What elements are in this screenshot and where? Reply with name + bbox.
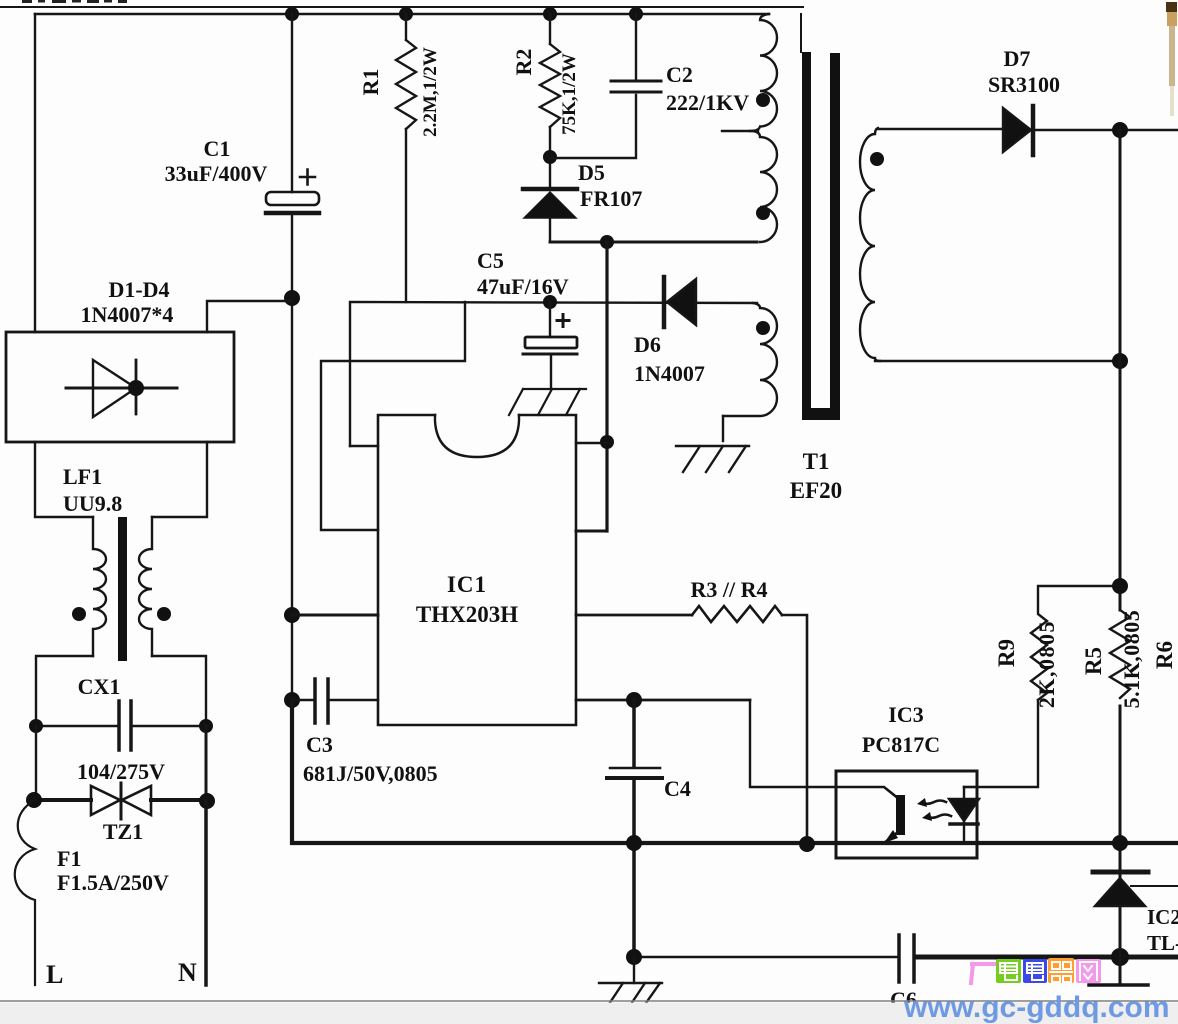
- label C5: [477, 248, 569, 299]
- svg-text:TL-: TL-: [1147, 931, 1178, 955]
- wire to IC3 input: [750, 700, 836, 787]
- label R3//R4: [691, 577, 768, 602]
- label D5: [578, 160, 642, 211]
- svg-text:681J/50V,0805: 681J/50V,0805: [303, 761, 438, 786]
- node C4 top: [626, 692, 642, 708]
- wire IC1 right pin y443: [576, 442, 607, 444]
- svg-text:5.1K,0805: 5.1K,0805: [1119, 610, 1144, 709]
- svg-text:47uF/16V: 47uF/16V: [477, 274, 569, 299]
- svg-text:D6: D6: [634, 332, 661, 357]
- diode D5 FR107: [523, 189, 577, 242]
- node y843/x634: [626, 835, 642, 851]
- label R5: [1081, 610, 1144, 709]
- svg-text:TZ1: TZ1: [103, 819, 143, 844]
- wire ground bus y843: [292, 700, 1178, 843]
- label D1-D4: [81, 277, 174, 327]
- svg-text:IC3: IC3: [888, 702, 923, 727]
- transformer core T1: [801, 14, 840, 420]
- svg-text:D5: D5: [578, 160, 605, 185]
- wire y302: C5/D6 net: [350, 302, 757, 446]
- resistor R1: [396, 14, 416, 302]
- ground (C4 net): [599, 957, 662, 1007]
- node y843/x1120: [1112, 835, 1128, 851]
- svg-text:C3: C3: [306, 732, 333, 757]
- label C6: [890, 987, 917, 1012]
- label IC1: [416, 572, 518, 627]
- svg-text:SR3100: SR3100: [988, 72, 1060, 97]
- label N: [178, 958, 197, 987]
- label IC2: [1147, 905, 1178, 955]
- TVS TZ1: [26, 783, 215, 819]
- svg-text:www.gc-gddq.com: www.gc-gddq.com: [903, 991, 1170, 1024]
- svg-text:D1-D4: D1-D4: [108, 277, 169, 302]
- capacitor C4: [607, 700, 662, 957]
- wire IC1 left pin y615: [292, 614, 378, 617]
- capacitor CX1: [29, 701, 213, 750]
- svg-text:C1: C1: [204, 136, 231, 161]
- svg-text:PC817C: PC817C: [862, 732, 940, 757]
- wire D5 bottom to winding B: [550, 241, 757, 244]
- transformer T1 secondary winding: [860, 128, 880, 361]
- svg-text:222/1KV: 222/1KV: [666, 90, 749, 115]
- node x292/y615: [284, 607, 300, 623]
- wire N rail bottom: [204, 801, 208, 985]
- node at R1 top: [399, 7, 413, 21]
- node y843/x807: [799, 836, 815, 852]
- wire secondary bottom to right rail: [875, 360, 1121, 362]
- shunt regulator IC2 TL431: [1089, 872, 1178, 985]
- label C3: [303, 732, 438, 786]
- bridge rectifier D1-D4: [6, 332, 234, 442]
- label CX1: [77, 674, 165, 784]
- capacitor C5: [523, 302, 577, 389]
- wire bridge out to x292: [207, 301, 292, 332]
- label LF1: [63, 464, 122, 516]
- secondary phase dot: [870, 152, 884, 166]
- label R2: [511, 49, 580, 135]
- svg-text:R2: R2: [511, 49, 536, 76]
- transformer T1 primary winding B: [753, 131, 777, 242]
- node secondary bottom: [1112, 353, 1128, 369]
- svg-text:N: N: [178, 958, 197, 987]
- winding tap stub: [722, 130, 758, 132]
- label R9: [994, 620, 1059, 708]
- label F1: [57, 846, 169, 895]
- wire IC1 left pin y530 nested step: [321, 302, 465, 530]
- transformer T1 primary winding A: [750, 14, 777, 131]
- ground (aux winding): [676, 446, 749, 472]
- wire right rail: [1119, 130, 1122, 985]
- label D7: [988, 46, 1060, 97]
- svg-text:2K,0805: 2K,0805: [1034, 620, 1059, 708]
- capacitor C6: [899, 935, 914, 982]
- node C5 top: [543, 295, 557, 309]
- wire: top rail: [35, 13, 769, 16]
- top page border line: [0, 6, 803, 8]
- svg-text:F1.5A/250V: F1.5A/250V: [57, 870, 169, 895]
- wire IC1 right pin y615 + resistor R3//R4: [576, 606, 807, 845]
- wire left rail x292: [291, 298, 293, 843]
- bottom page border: [0, 1000, 1178, 1002]
- winding C phase dot: [756, 321, 770, 335]
- node y957/x1120: [1111, 948, 1129, 966]
- svg-text:1N4007*4: 1N4007*4: [81, 302, 174, 327]
- wire vertical x607 (D5 net down to IC1 right pins): [605, 242, 608, 531]
- svg-text:33uF/400V: 33uF/400V: [165, 161, 268, 186]
- wire C2 bottom to R2 bottom: [550, 95, 636, 158]
- wire D7 to right edge: [1033, 129, 1178, 131]
- node R2/C2 bottom junction: [543, 150, 557, 164]
- fuse F1: [15, 800, 35, 985]
- svg-text:LF1: LF1: [63, 464, 102, 489]
- capacitor C2: [611, 14, 661, 92]
- svg-text:EF20: EF20: [790, 478, 842, 503]
- svg-text:C4: C4: [664, 776, 691, 801]
- watermark 广电电器网: [971, 958, 1101, 983]
- capacitor C3: [292, 679, 378, 723]
- svg-text:75K,1/2W: 75K,1/2W: [559, 53, 580, 135]
- wire IC3 LED anode to R9: [977, 700, 1038, 787]
- svg-text:F1: F1: [57, 846, 81, 871]
- svg-text:R9: R9: [994, 639, 1019, 667]
- node x607 on y242: [600, 235, 614, 249]
- wire IC1 left pin y446: [350, 445, 378, 447]
- label C4: [664, 776, 691, 801]
- node x607/y442: [600, 435, 614, 449]
- node output top: [1112, 122, 1128, 138]
- node at C2 top: [629, 7, 643, 21]
- winding A phase dot: [756, 93, 770, 107]
- watermark www.gc-gddq.com: [903, 991, 1170, 1024]
- svg-text:D7: D7: [1004, 46, 1031, 71]
- common mode choke LF1: [35, 442, 207, 726]
- bottom rail y957: [634, 956, 899, 958]
- label IC3: [862, 702, 940, 757]
- transformer T1 aux winding C: [723, 303, 777, 416]
- node x292/y700: [284, 692, 300, 708]
- svg-text:R6: R6: [1152, 641, 1177, 669]
- svg-text:T1: T1: [803, 449, 830, 474]
- svg-text:R5: R5: [1081, 647, 1106, 675]
- svg-text:1N4007: 1N4007: [634, 361, 705, 386]
- node x292/y298: [284, 290, 300, 306]
- svg-text:C5: C5: [477, 248, 504, 273]
- label C1: [165, 136, 268, 186]
- svg-text:UU9.8: UU9.8: [63, 491, 122, 516]
- resistor R2: [540, 14, 560, 188]
- label R6 (cut off at edge): [1152, 641, 1177, 669]
- label L: [46, 960, 63, 989]
- label C2: [666, 62, 749, 115]
- node at R2 top: [543, 7, 557, 21]
- svg-text:2.2M,1/2W: 2.2M,1/2W: [420, 47, 441, 137]
- svg-text:R3 // R4: R3 // R4: [691, 577, 768, 602]
- label T1: [790, 449, 842, 503]
- wire IC1 right pin y531: [576, 530, 607, 533]
- capacitor C1: [266, 14, 319, 298]
- diode D6 1N4007: [664, 277, 696, 327]
- wire IC1 right pin y700: [576, 699, 750, 702]
- label R1: [358, 47, 441, 137]
- wire secondary top to D7: [878, 128, 1003, 130]
- diode D7 SR3100: [1003, 106, 1033, 155]
- svg-text:R1: R1: [358, 69, 383, 96]
- label D6: [634, 332, 705, 386]
- wire: left rail upper: [34, 14, 36, 332]
- node y957/x634: [626, 949, 642, 965]
- node R9 top on rail: [1112, 578, 1128, 594]
- svg-text:CX1: CX1: [78, 674, 121, 699]
- svg-text:THX203H: THX203H: [416, 602, 518, 627]
- label TZ1: [103, 819, 143, 844]
- svg-text:104/275V: 104/275V: [77, 759, 165, 784]
- svg-text:C2: C2: [666, 62, 693, 87]
- resistor R5 (inline on rail): [1110, 610, 1130, 698]
- winding B phase dot: [756, 206, 770, 220]
- wires CX1 to TZ1 rails: [35, 726, 37, 800]
- top-right browser artifact: [1166, 2, 1177, 116]
- opto-coupler IC3 PC817C: [836, 771, 979, 858]
- wire winding C bottom to ground: [722, 416, 724, 441]
- IC1 THX203H box: [378, 415, 576, 725]
- svg-text:L: L: [46, 960, 63, 989]
- top text fragments: [22, 0, 127, 3]
- node at C1 top: [285, 7, 299, 21]
- svg-text:IC1: IC1: [447, 572, 487, 597]
- svg-text:IC2: IC2: [1147, 905, 1178, 929]
- resistor R9: [1031, 586, 1120, 700]
- hatch pad symbol above IC1: [509, 389, 586, 415]
- svg-text:FR107: FR107: [580, 186, 642, 211]
